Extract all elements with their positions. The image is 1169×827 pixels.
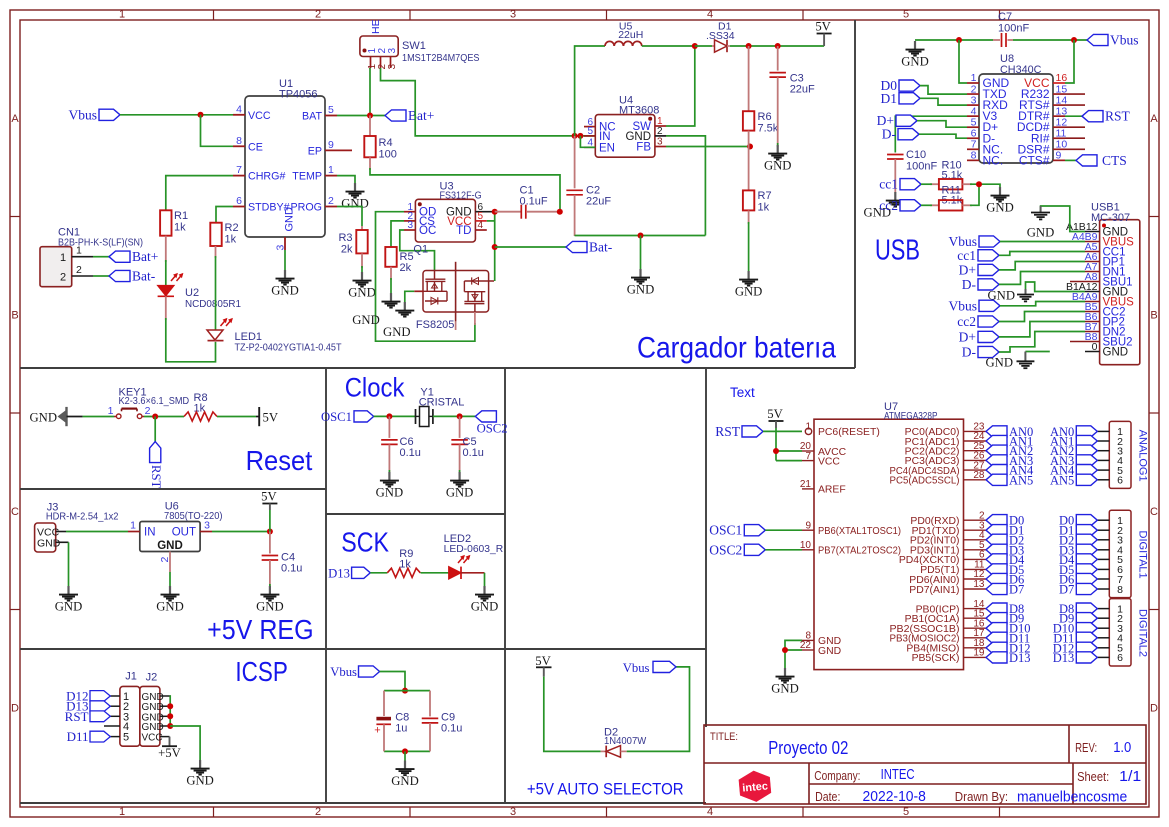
text note Text [730,385,755,400]
svg-text:1: 1 [328,164,334,176]
junction FB divider [747,144,753,150]
wire 5V to AVCC/VCC [776,428,802,461]
svg-text:1k: 1k [225,234,237,246]
junction R6 top [746,43,752,49]
junction J2 pin2 [167,703,173,709]
svg-text:5: 5 [587,126,593,137]
crystal Y1 [416,407,433,427]
wire J2 gnd bus [169,696,172,726]
svg-text:D13: D13 [1009,651,1031,665]
global label RST (ICSP) [65,709,89,724]
wire GND flag to KEY1 [83,416,114,418]
svg-text:3: 3 [407,220,413,231]
svg-text:5: 5 [123,732,129,744]
svg-text:5: 5 [903,9,909,21]
svg-text:SW1: SW1 [402,40,426,52]
svg-text:D-: D- [882,127,897,142]
svg-text:D11: D11 [67,729,89,744]
svg-text:NC.: NC. [983,153,1004,167]
wire KEY1 to R8 [144,416,184,418]
svg-text:VCC: VCC [818,456,840,467]
U8 CH340C body [979,53,1053,163]
svg-text:C: C [11,506,19,518]
capacitor C9 0.1u [422,691,463,752]
resistor R5 2k [385,247,413,280]
wire D2 to Vbus [627,667,690,752]
svg-text:D1: D1 [881,91,898,106]
svg-text:0: 0 [1092,341,1098,353]
U8 left pins [967,72,1010,167]
global label RST (U8 DTR#) [1065,109,1131,124]
svg-text:4: 4 [478,220,484,231]
svg-text:2: 2 [159,557,171,563]
frame row ticks and letters [10,113,1159,715]
svg-text:8: 8 [236,135,242,147]
svg-text:EN: EN [599,142,615,154]
svg-text:Vbus: Vbus [948,298,977,313]
svg-text:Cargador baterıa: Cargador baterıa [637,332,836,365]
U8 unconnected stubs right [1065,94,1085,149]
svg-text:GND: GND [446,486,474,500]
wire ground rail under U4 [575,235,706,237]
ground (C6) [376,472,404,500]
svg-text:C3: C3 [790,73,804,85]
wire R8 to 5V flag [217,416,256,418]
svg-text:ANALOG1: ANALOG1 [1136,430,1148,482]
svg-text:.SS34: .SS34 [706,30,735,42]
svg-text:TEMP: TEMP [292,171,322,183]
wire USB top rail [915,39,1087,41]
INTEC logo [738,770,771,803]
svg-text:R1: R1 [174,210,188,222]
svg-text:0.1u: 0.1u [463,447,484,459]
ground (U1 GND) [271,270,299,298]
junction J2 pin3 [167,713,173,719]
wire U6 GND to ground [169,572,171,586]
svg-text:GND: GND [986,201,1014,215]
svg-text:D13: D13 [1053,651,1075,665]
wire USB1 SBU1 stub [1070,281,1085,283]
U4 left pins NC IN EN [584,117,616,155]
junction C3 top [775,43,781,49]
svg-text:OSC1: OSC1 [709,523,742,538]
global label D1 (U8 RXD) [881,91,968,106]
svg-text:intec: intec [742,780,769,794]
U8 right pins [1017,72,1068,167]
connector J2 [140,686,160,746]
svg-text:GND: GND [383,325,411,339]
resistor R4 100 [364,116,397,171]
svg-text:0.1uF: 0.1uF [520,196,548,208]
junction IN rail C2 [572,133,578,139]
resistor R10 5.1k [930,160,972,190]
connector ANALOG1 [1050,421,1148,488]
svg-text:RST: RST [149,465,163,489]
svg-text:LED-0603_R: LED-0603_R [444,543,504,555]
svg-text:2: 2 [145,405,151,417]
svg-text:TZ-P2-0402YGTIA1-0.45T: TZ-P2-0402YGTIA1-0.45T [235,342,343,354]
section divider lines [20,20,855,803]
svg-text:D: D [11,703,19,715]
svg-text:8: 8 [971,150,977,162]
svg-text:1: 1 [130,520,136,532]
svg-text:RST: RST [1105,109,1131,124]
wire cap top rail [384,690,430,692]
svg-text:2: 2 [60,272,66,284]
resistor R2 1k [210,222,238,246]
svg-text:D-: D- [962,345,977,360]
wire USB1 GND A1B12 to ground [1041,206,1085,232]
global label CTS (U8 CTS#) [1065,153,1127,168]
svg-text:3: 3 [387,48,398,54]
svg-text:Vbus: Vbus [330,665,357,679]
svg-text:C2: C2 [586,185,600,197]
wire U1 BAT to Bat+ label [337,115,385,117]
svg-text:B: B [11,310,18,322]
capacitor C4 0.1u [262,532,303,587]
svg-text:5V: 5V [767,407,783,421]
resistor R1 1k [160,210,188,236]
ground (USB top rail) [901,41,929,69]
svg-text:GND: GND [764,159,792,173]
wire C3 to ground [777,143,779,147]
global label Bat- (protection) [566,240,613,255]
wire SW node to D1 [695,45,712,47]
wire C5 to ground [459,470,461,474]
U1 bottom pin 3 GND [275,207,296,251]
U3 left pins OD CS OC [404,202,436,237]
junction C7 right [1071,37,1077,43]
U1 TP4056 body [245,78,325,237]
global label D0 (U8 TXD) [881,78,968,94]
global label OSC2 (MCU) [709,542,802,557]
svg-text:J2: J2 [146,672,158,684]
svg-text:5: 5 [328,104,334,116]
global label RST (reset, vertical) [149,442,163,489]
junction U7 GND [782,647,788,653]
svg-text:5V: 5V [263,411,279,425]
junction U3 GND / C1 [492,209,498,215]
svg-text:GND: GND [156,600,184,614]
resistor R3 2k [338,226,367,268]
svg-text:28: 28 [973,470,985,481]
wire R1 to U2 [165,236,167,285]
svg-text:6: 6 [236,195,242,207]
svg-text:DIGITAL2: DIGITAL2 [1136,609,1148,657]
wire junction down to U8 VCC [1065,40,1074,83]
svg-text:4: 4 [707,9,713,21]
svg-text:C: C [1150,506,1158,518]
wire U1 CHRG# to R1 [166,176,233,211]
svg-text:Date:: Date: [815,790,840,804]
capacitor C10 100nF [887,149,937,192]
svg-text:ICSP: ICSP [235,656,287,687]
svg-text:AREF: AREF [818,485,846,496]
svg-text:1: 1 [76,245,82,257]
section title ICSP [235,656,287,687]
inductor U5 22uH [605,21,643,47]
svg-text:OUT: OUT [172,527,196,539]
ground (ICSP) [186,760,214,788]
wire USB1 GND B1A12 to ground [1026,282,1086,292]
svg-text:Vbus: Vbus [1110,33,1139,48]
wire USB1 SBU2 stub [1070,341,1085,343]
svg-text:TD: TD [456,225,471,237]
svg-text:GND: GND [735,285,763,299]
svg-text:HDR-M-2.54_1x2: HDR-M-2.54_1x2 [46,511,119,523]
svg-text:3: 3 [204,520,210,532]
section title +5V REG [207,614,314,645]
svg-text:GND: GND [186,774,214,788]
wire D1 to 5V [730,45,824,47]
svg-text:GND: GND [271,284,299,298]
svg-text:GND: GND [1103,347,1129,359]
global label D13 (SCK) [328,567,370,581]
ground (USB1 top) [1027,206,1055,240]
svg-text:8: 8 [1117,584,1123,596]
svg-text:R3: R3 [338,232,352,244]
connector CN1 B2B-PH-K-S(LF)(SN) [40,227,143,287]
connector J3 HDR-M-2.54_1x2 [35,502,119,553]
svg-text:9: 9 [805,520,811,531]
svg-text:Clock: Clock [345,373,405,403]
svg-text:1: 1 [119,806,125,818]
capacitor C6 0.1u [381,416,421,472]
resistor R11 5.1k [930,185,972,211]
svg-text:GND: GND [901,55,929,69]
power flag 5V (MCU) [767,407,783,428]
svg-text:+5V REG: +5V REG [207,614,314,645]
ground (R3) [348,272,376,300]
svg-text:C1: C1 [520,185,534,197]
svg-text:R2: R2 [225,222,239,234]
section title SCK [341,527,389,558]
svg-text:1/1: 1/1 [1119,769,1141,785]
svg-text:B: B [1150,310,1157,322]
wire rail to ground [404,751,406,760]
global label OSC2 (clock) [475,411,507,436]
wire Vbus to cap rail [380,672,405,691]
svg-text:VCC: VCC [248,110,271,122]
svg-text:MT3608: MT3608 [619,105,659,117]
global label D+ (USB1 DP1) [959,262,1085,278]
Q1 pin stubs [414,291,475,330]
global label Vbus (U1 VCC) [68,107,120,122]
svg-text:9: 9 [1056,150,1062,162]
svg-text:0.1u: 0.1u [441,723,462,735]
svg-text:7.5k: 7.5k [758,123,779,135]
svg-text:21: 21 [800,479,812,490]
junction cap rail bottom [402,748,408,754]
U7 left pins [800,422,901,657]
global label D- (U8) [882,127,967,142]
U6 7805(TO-220) body [128,501,223,573]
svg-text:CTS#: CTS# [1019,153,1050,167]
ground (USB1 shield) [986,352,1035,370]
svg-text:J1: J1 [125,671,137,683]
svg-text:AN5: AN5 [1009,473,1033,487]
svg-text:D+: D+ [959,262,976,277]
svg-text:B2B-PH-K-S(LF)(SN): B2B-PH-K-S(LF)(SN) [58,237,143,249]
wire LED2 to ground [484,573,486,586]
global label D- (USB1 DN1) [962,272,1085,292]
wire U3 VCC to vertical [487,220,495,222]
wire U3 OC to Q1 gate1 [400,230,435,271]
U4 MT3608 body [595,95,659,158]
wire SW1 pin2 to U4 IN rail [381,68,596,136]
transistor Q1 FS8205 body [413,244,494,332]
svg-text:R7: R7 [758,190,772,202]
svg-text:Vbus: Vbus [948,234,977,249]
svg-text:1: 1 [60,252,66,264]
svg-text:SCK: SCK [341,527,389,558]
svg-text:GND: GND [284,207,296,232]
svg-text:Reset: Reset [246,445,313,476]
svg-text:OSC2: OSC2 [709,542,742,557]
capacitor C3 22uF [769,46,815,145]
svg-text:19: 19 [973,648,985,659]
svg-text:R4: R4 [379,137,393,149]
ground (U1 TEMP) [341,183,369,211]
resistor R7 1k [743,147,772,225]
svg-text:GND: GND [471,600,499,614]
wire IN rail up to inductor [575,46,605,136]
wire U1 STDBY# to R2 [216,207,233,223]
svg-text:6: 6 [1117,652,1123,664]
svg-text:100: 100 [379,149,397,161]
title block Sheet field [1077,769,1141,785]
wire R4 to C1 junction rail [370,168,560,212]
power flag GND (reset) [30,407,83,426]
svg-text:Vbus: Vbus [623,661,650,675]
wire U4 GND to rail [666,136,705,236]
svg-text:1: 1 [805,422,811,433]
wire junction to U1 CE [201,115,234,147]
svg-text:GND: GND [157,540,183,552]
svg-text:Bat+: Bat+ [132,249,158,264]
ground (J3) [55,586,83,614]
svg-text:3: 3 [275,245,287,251]
svg-text:GND: GND [771,682,799,696]
svg-text:GND: GND [1027,226,1055,240]
svg-text:2k: 2k [400,262,412,274]
svg-text:GND: GND [256,600,284,614]
svg-text:CH340C: CH340C [1000,64,1042,76]
svg-text:cc2: cc2 [957,314,976,329]
USB1 MC-307 body [1091,202,1140,365]
LED LED2 red [449,556,485,580]
svg-text:Proyecto 02: Proyecto 02 [768,738,848,758]
wire R5 to ground [390,278,392,293]
svg-text:DIGITAL1: DIGITAL1 [1136,531,1148,579]
LED2 labels [444,533,504,555]
svg-text:2: 2 [657,126,663,137]
global label Bat+ (CN1) [93,249,158,264]
svg-text:CHRG#: CHRG# [248,171,285,183]
svg-text:FS312F-G: FS312F-G [440,190,482,202]
title block Company field [814,767,914,783]
svg-text:manuelbencosme: manuelbencosme [1017,789,1127,806]
U4 right pins SW GND FB [625,116,666,153]
LED LED1 TZ-P2-0402YGTIA1-0.45T [207,319,342,354]
global label cc2 [879,198,932,213]
svg-text:cc1: cc1 [957,248,976,263]
ground (U4 rail) [627,269,655,297]
wire 5V down to D2 [544,677,601,752]
svg-text:22uF: 22uF [790,84,815,96]
diode D2 1N4007W [601,727,647,758]
svg-text:22uF: 22uF [586,196,611,208]
USB1 pins [1066,221,1134,359]
svg-text:GND: GND [348,286,376,300]
svg-text:1k: 1k [399,559,411,571]
global label cc1 [879,177,932,192]
svg-text:7: 7 [236,164,242,176]
svg-text:OSC1: OSC1 [321,410,352,424]
wire R9 to LED2 [421,572,449,574]
svg-text:OC: OC [419,225,436,237]
svg-text:+: + [374,725,380,737]
wire D13 to R9 [370,572,387,574]
svg-text:GND: GND [142,722,164,733]
ground (C10) [864,192,905,220]
svg-text:7805(TO-220): 7805(TO-220) [164,510,223,522]
U1 right pins BAT EP TEMP PROG [291,104,352,214]
svg-text:4: 4 [707,806,713,818]
svg-text:1.0: 1.0 [1113,740,1131,756]
global label OSC1 (clock) [321,410,374,424]
ground (R7) [735,271,763,299]
wire U1 TEMP to GND [337,176,355,183]
wire R3 to ground [361,266,363,272]
capacitor C7 100nF [993,11,1029,47]
title block REV field [1075,740,1131,756]
svg-text:2: 2 [76,264,82,276]
svg-text:BAT: BAT [302,111,322,123]
svg-text:3: 3 [510,806,516,818]
wire Q1 source2 up to Bat- node [494,212,496,281]
junction J2 pin4 [167,723,173,729]
section title +5V AUTO SELECTOR [527,781,684,799]
global label Vbus (decoupling) [330,665,379,679]
global label cc1 (USB1) [957,248,1085,263]
wire junction down to U8 GND [959,40,967,83]
svg-text:1k: 1k [758,202,770,214]
wire Q1 source1 to ground [405,291,414,302]
svg-text:PC6(RESET): PC6(RESET) [818,427,880,438]
wire R7 to ground [748,222,750,271]
wire R2 to LED1 top [215,246,217,330]
svg-text:Bat+: Bat+ [408,108,434,123]
svg-text:100nF: 100nF [906,161,937,173]
ground (LED2) [471,586,499,614]
wire U7 GND pins to ground [785,640,802,668]
global label D- (USB1 DN2) [962,332,1085,360]
svg-text:REV:: REV: [1075,741,1097,755]
U7 ATMEGA328P body [814,401,964,670]
global labels AN0-AN5 (U7) [986,425,1034,487]
svg-text:GND: GND [376,486,404,500]
wire U3 CS to R5 [391,221,404,247]
wire U1 PROG to R3 [337,207,362,227]
junction C5 node [457,413,463,419]
svg-text:13: 13 [973,579,985,590]
svg-text:USB: USB [875,235,920,267]
crystal Y1 CRISTAL labels [419,387,465,409]
global label D11 (ICSP) [67,729,89,744]
wire U4 SW up to D1 rail [666,46,695,126]
global label Vbus (auto selector) [623,661,676,675]
